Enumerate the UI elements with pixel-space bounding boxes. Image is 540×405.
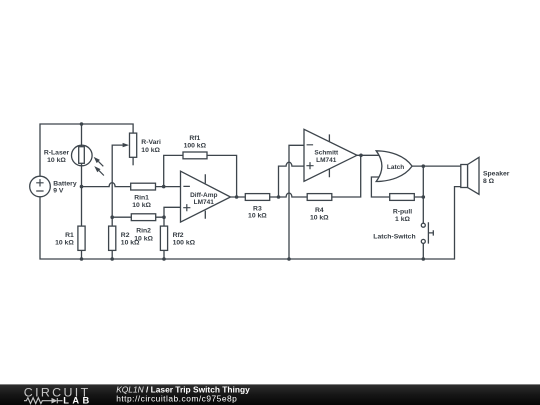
svg-text:10 kΩ: 10 kΩ <box>55 239 74 246</box>
svg-text:http://circuitlab.com/c975e8p: http://circuitlab.com/c975e8p <box>116 394 237 404</box>
svg-text:100 kΩ: 100 kΩ <box>184 143 207 150</box>
svg-text:10 kΩ: 10 kΩ <box>141 147 160 154</box>
svg-text:R3: R3 <box>253 205 262 212</box>
svg-text:R-Laser: R-Laser <box>44 149 70 156</box>
svg-text:Latch: Latch <box>387 164 404 171</box>
svg-text:8 Ω: 8 Ω <box>483 178 495 185</box>
svg-text:Rin2: Rin2 <box>136 228 151 235</box>
svg-text:10 kΩ: 10 kΩ <box>310 214 329 221</box>
svg-text:10 kΩ: 10 kΩ <box>132 202 151 209</box>
svg-text:R2: R2 <box>121 232 130 239</box>
svg-text:LAB: LAB <box>63 395 92 405</box>
svg-text:Schmitt: Schmitt <box>314 150 339 157</box>
svg-text:10 kΩ: 10 kΩ <box>47 157 66 164</box>
svg-text:Rin1: Rin1 <box>134 195 149 202</box>
svg-text:R-pull: R-pull <box>393 208 412 215</box>
svg-text:10 kΩ: 10 kΩ <box>248 213 267 220</box>
svg-text:Battery: Battery <box>53 181 77 188</box>
svg-text:Rf1: Rf1 <box>189 135 200 142</box>
svg-text:Speaker: Speaker <box>483 171 510 178</box>
svg-text:R-Vari: R-Vari <box>141 139 161 146</box>
svg-text:1 kΩ: 1 kΩ <box>395 216 410 223</box>
svg-text:Latch-Switch: Latch-Switch <box>373 233 415 240</box>
svg-text:100 kΩ: 100 kΩ <box>173 240 196 247</box>
svg-text:R4: R4 <box>315 207 324 214</box>
svg-text:LM741: LM741 <box>194 199 215 206</box>
svg-text:Diff-Amp: Diff-Amp <box>190 192 217 199</box>
svg-text:R1: R1 <box>65 232 74 239</box>
svg-text:LM741: LM741 <box>316 157 337 164</box>
svg-text:Rf2: Rf2 <box>173 232 184 239</box>
svg-text:9 V: 9 V <box>53 188 64 195</box>
svg-text:10 kΩ: 10 kΩ <box>121 240 140 247</box>
